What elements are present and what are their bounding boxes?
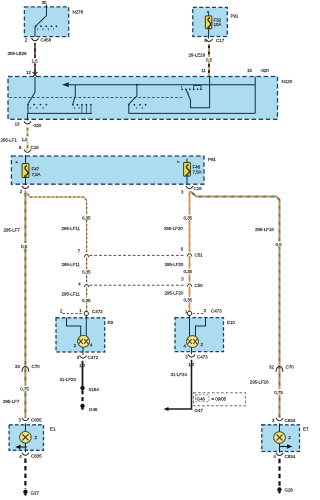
svg-text:F47: F47 (32, 166, 40, 171)
lamp bulb E7 (274, 432, 286, 444)
svg-text:C16: C16 (31, 145, 40, 150)
1,0 gauge label E9 (79, 362, 88, 368)
E7 direction arrow (280, 444, 293, 448)
ground G26 (277, 487, 281, 494)
connector C834 bottom symbol (276, 453, 283, 456)
connector C18 symbol (186, 186, 193, 189)
svg-text:E7: E7 (303, 426, 309, 431)
svg-text:295-LF16: 295-LF16 (250, 380, 269, 385)
svg-text:C472: C472 (88, 355, 99, 360)
N120 pin 15 internal line (254, 77, 256, 114)
svg-text:7,5A: 7,5A (32, 172, 42, 177)
svg-text:0,75: 0,75 (20, 386, 29, 391)
E9 bottom exit (82, 347, 84, 355)
ground G27 (23, 490, 27, 496)
svg-text:1,5: 1,5 (22, 137, 29, 142)
svg-text:G27: G27 (31, 491, 40, 496)
svg-text:0,5: 0,5 (21, 244, 28, 249)
svg-text:13: 13 (15, 122, 20, 127)
svg-text:C51: C51 (195, 252, 204, 257)
0,35 label LF11-2 (82, 269, 93, 275)
svg-text:295-LF7: 295-LF7 (4, 228, 21, 233)
svg-text:1,5: 1,5 (32, 59, 39, 64)
0,5 gauge label (206, 57, 214, 62)
svg-text:295-LF11: 295-LF11 (62, 226, 81, 231)
svg-text:C834: C834 (285, 454, 296, 459)
svg-text:12: 12 (26, 70, 31, 75)
wire 295-LF1 (27, 127, 29, 151)
wire 295-LF16 branch (191, 192, 280, 419)
svg-text:295-LF20: 295-LF20 (165, 291, 184, 296)
svg-text:C473: C473 (197, 355, 208, 360)
C51 left connector circle (84, 253, 89, 258)
fuse box P91 top right (193, 7, 228, 36)
ground lead E9 (81, 390, 83, 403)
svg-text:P91: P91 (231, 14, 239, 19)
svg-text:29-LE29: 29-LE29 (189, 52, 206, 57)
svg-text:C473: C473 (211, 308, 222, 313)
N120 pin 13 exit drop (27, 113, 29, 120)
svg-text:32: 32 (269, 364, 274, 369)
0,35 label LF20-2 (183, 269, 194, 275)
E7 bottom stub (279, 443, 281, 452)
svg-text:295-LF1: 295-LF1 (1, 138, 18, 143)
wire 31-LF23 (82, 361, 84, 387)
connector C70 right (269, 364, 294, 371)
svg-text:C17: C17 (216, 38, 225, 43)
svg-text:0,75: 0,75 (274, 390, 283, 395)
E1 top internal stub (24, 423, 26, 431)
C51 right connector circle (187, 252, 192, 257)
lamp unit E9 box (56, 318, 105, 352)
lamp bulb E10 (187, 336, 199, 348)
svg-text:295-LF11: 295-LF11 (62, 262, 81, 267)
connector C456 symbol (32, 38, 39, 41)
svg-text:0,5: 0,5 (206, 57, 213, 62)
N120 switch group 3 (128, 84, 147, 114)
connector C16 symbol (24, 150, 31, 153)
svg-text:C834: C834 (285, 418, 296, 423)
svg-text:C50: C50 (195, 283, 204, 288)
pin 13 connector symbol (24, 121, 31, 124)
svg-text:C835: C835 (31, 454, 42, 459)
E9 internal wiring (67, 316, 87, 336)
E10 top dashed link (193, 312, 203, 314)
svg-text:11: 11 (201, 68, 206, 73)
N120 switch group 2 (72, 85, 92, 114)
svg-text:P91: P91 (208, 157, 216, 162)
svg-text:C70: C70 (32, 364, 41, 369)
N120 contact dots row 1 (27, 104, 47, 110)
svg-text:295-LF20: 295-LF20 (164, 226, 183, 231)
connector C472 bottom symbol (80, 355, 87, 358)
svg-text:G26: G26 (285, 488, 294, 493)
0,35 label LF11-3 (82, 298, 93, 304)
E10 internal wiring (190, 316, 206, 337)
X splice at pin 12 (33, 72, 38, 77)
control unit N120 box (8, 77, 278, 120)
0,35 label LF20-3 (183, 297, 194, 303)
connector C834 top symbol (276, 418, 283, 421)
svg-text:31-LF23: 31-LF23 (60, 377, 77, 382)
lamp unit E10 box (175, 318, 224, 352)
C50 right connector circle (187, 282, 192, 287)
svg-text:15: 15 (247, 68, 252, 73)
lamp unit E7 box (262, 425, 300, 452)
E1 bottom stub (24, 443, 26, 452)
svg-text:≡ 09/05: ≡ 09/05 (212, 397, 227, 402)
1,5 gauge label (31, 58, 39, 64)
svg-text:E10: E10 (227, 320, 235, 325)
N120 internal: entry line pin12 (34, 77, 36, 93)
1,5 gauge label (21, 136, 30, 142)
0,5 label LF16 (275, 241, 283, 247)
svg-text:C835: C835 (31, 418, 42, 423)
svg-text:0,5: 0,5 (276, 242, 283, 247)
wire 29-LE29 (208, 44, 210, 77)
E10 top connector circle (187, 311, 191, 315)
connector symbol pin 2 (22, 186, 29, 189)
0,35 label LF20-1 (183, 215, 194, 221)
wire 295-LF20 (189, 191, 191, 311)
connector C473 bottom symbol (188, 354, 195, 357)
1,0 gauge label E10 (188, 361, 197, 367)
svg-text:C456: C456 (41, 38, 52, 43)
connector C835 top symbol (22, 418, 29, 421)
E7 top internal stub (279, 423, 281, 431)
svg-text:295-LF7: 295-LF7 (3, 399, 20, 404)
reference note box G46 09/05 (194, 393, 246, 406)
svg-text:0,35: 0,35 (184, 298, 193, 303)
N120 internal dashed link line (10, 96, 184, 98)
connector C70 left (15, 364, 40, 372)
ground lead E1 (24, 459, 26, 490)
svg-text:0,35: 0,35 (82, 215, 91, 220)
svg-text:-320: -320 (33, 123, 42, 128)
0,5 gauge label LF7 (21, 243, 29, 249)
svg-text:31-LF24: 31-LF24 (171, 372, 188, 377)
connector C835 bottom symbol (22, 453, 29, 456)
lamp bulb E1 (20, 432, 32, 444)
ground G46 (80, 404, 84, 411)
E1 direction arrow (15, 445, 26, 449)
fuse box P91 (second) (11, 156, 204, 184)
svg-text:E1: E1 (50, 426, 56, 431)
fuse F46 (184, 159, 191, 186)
N120 bus segment 1 (28, 112, 93, 114)
0,75 label LF7 (20, 386, 31, 392)
svg-text:295-LF20: 295-LF20 (165, 262, 184, 267)
E9 top dashed link (63, 313, 84, 315)
svg-text:7,5A: 7,5A (193, 169, 203, 174)
svg-text:G46: G46 (89, 407, 98, 412)
wire 305-LB29 (34, 43, 36, 74)
svg-text:N120: N120 (282, 79, 293, 84)
svg-text:305-LB29: 305-LB29 (8, 51, 28, 56)
svg-text:-320: -320 (260, 68, 269, 73)
svg-text:G47: G47 (195, 408, 204, 413)
svg-text:295-LF11: 295-LF11 (62, 291, 81, 296)
relay N278 box (24, 7, 68, 37)
C50 left connector circle (84, 283, 89, 288)
ground lead E7 (278, 459, 280, 487)
svg-text:0,35: 0,35 (82, 270, 91, 275)
svg-text:295-LF16: 295-LF16 (255, 227, 274, 232)
svg-text:S184: S184 (89, 387, 100, 392)
switch inside N278 (35, 16, 58, 38)
svg-text:E9: E9 (108, 320, 114, 325)
splice S184 (80, 386, 84, 390)
svg-text:G46: G46 (197, 397, 206, 402)
N120 switch blade 1 (28, 92, 35, 104)
C51 dashed link (90, 254, 186, 256)
svg-text:C472: C472 (92, 309, 103, 314)
0,35 label LF11-1 (82, 215, 93, 221)
N120 bus segment 2 (129, 112, 255, 114)
svg-text:33: 33 (15, 364, 20, 369)
svg-text:C70: C70 (286, 364, 295, 369)
0,75 label LF16 (274, 389, 285, 395)
lamp bulb E9 (78, 335, 90, 347)
E9 top connector circle (84, 311, 88, 315)
connector C17 symbol (206, 39, 213, 42)
svg-text:C18: C18 (194, 186, 203, 191)
wire 295-LF11 branch (27, 193, 87, 312)
E10 bottom exit (191, 347, 193, 354)
svg-text:0,35: 0,35 (82, 298, 91, 303)
wire 31-LF24 with G47 arrow (164, 360, 192, 411)
N120 left arrow line (62, 82, 255, 87)
C50 dashed link (90, 284, 186, 286)
lamp unit E1 box (9, 425, 43, 451)
svg-text:10A: 10A (214, 22, 223, 27)
pin 30 stub (46, 5, 48, 16)
wire 295-LF7 long left (24, 191, 26, 419)
svg-text:30: 30 (42, 0, 47, 5)
svg-text:0,35: 0,35 (184, 269, 193, 274)
fuse F32 (205, 13, 211, 39)
N120 switch group 4 (181, 77, 210, 108)
svg-text:N278: N278 (73, 10, 84, 15)
fuse F47 (22, 155, 29, 185)
N120 drop to bus (27, 105, 29, 114)
svg-text:0,35: 0,35 (184, 215, 193, 220)
